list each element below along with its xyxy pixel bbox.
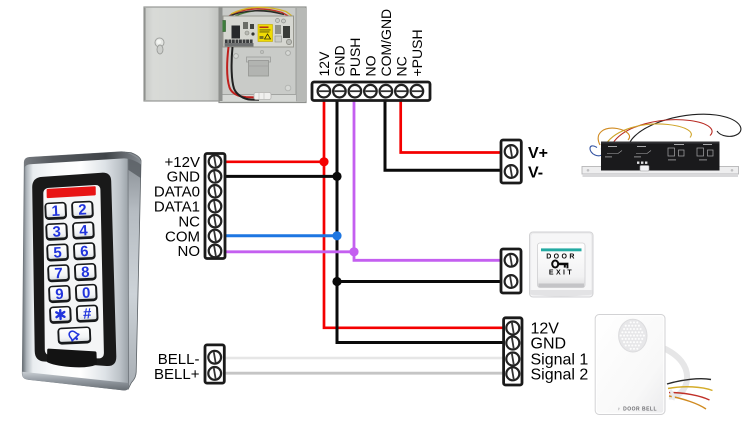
bell box <box>595 315 665 415</box>
wire black COM/GND to V- <box>385 98 501 170</box>
keypad case front <box>22 152 128 390</box>
key * <box>49 306 72 324</box>
key 2 <box>71 201 94 220</box>
wire white signal1 <box>224 357 503 360</box>
keypad black bezel panel <box>32 173 116 366</box>
svg-text:Signal 2: Signal 2 <box>531 366 589 383</box>
svg-text:PUSH: PUSH <box>347 38 363 77</box>
terminal block bell <box>504 318 522 385</box>
svg-text:1: 1 <box>51 203 60 220</box>
bell speaker <box>619 319 647 352</box>
key 5 <box>46 243 69 262</box>
wire black GND vertical to bell <box>337 98 504 343</box>
svg-text:GND: GND <box>531 336 567 353</box>
svg-text:V+: V+ <box>528 145 548 162</box>
terminal block exit button <box>501 249 521 293</box>
key bell <box>57 326 91 345</box>
svg-text:GND: GND <box>332 45 348 76</box>
svg-text:NO: NO <box>363 55 379 76</box>
door bell <box>595 315 712 415</box>
junction dot red <box>319 157 328 166</box>
svg-text:12V: 12V <box>316 51 332 77</box>
PSU door lock <box>155 38 164 47</box>
svg-text:2: 2 <box>78 201 87 218</box>
svg-text:♀ DOOR BELL: ♀ DOOR BELL <box>617 407 657 413</box>
svg-text:BELL+: BELL+ <box>154 366 200 383</box>
wire purple keypad NO <box>225 250 354 253</box>
keypad white key plate <box>43 185 104 358</box>
key 1 <box>44 202 67 221</box>
junction dot purple <box>349 247 358 256</box>
junction dot black GND/keypad <box>332 172 341 181</box>
power supply enclosure <box>144 7 306 103</box>
wire blue keypad COM <box>225 234 337 237</box>
svg-text:9: 9 <box>55 286 64 303</box>
svg-text:5: 5 <box>53 244 62 261</box>
svg-text:0: 0 <box>82 285 91 302</box>
terminal block PSU outputs (top) <box>312 82 430 101</box>
svg-text:#: # <box>83 305 93 322</box>
wire red keypad +12V <box>225 160 324 163</box>
key 3 <box>45 223 68 242</box>
svg-text:+PUSH: +PUSH <box>409 29 425 76</box>
key 0 <box>75 284 98 303</box>
svg-text:COM/GND: COM/GND <box>378 9 394 77</box>
key 6 <box>73 242 96 261</box>
svg-text:NC: NC <box>394 56 410 76</box>
svg-text:4: 4 <box>79 222 89 239</box>
junction dot blue COM <box>332 231 341 240</box>
bell cable <box>661 347 687 397</box>
wire red 12V vertical to bell <box>324 98 504 328</box>
keypad red LED bar <box>47 186 96 198</box>
keypad case side <box>124 152 141 390</box>
svg-text:8: 8 <box>81 264 90 281</box>
key icon <box>552 261 568 269</box>
lock mounting plate <box>582 167 739 175</box>
key 8 <box>74 263 97 282</box>
wire purple PUSH vertical <box>354 98 501 260</box>
keypad bottom recess <box>47 349 97 368</box>
key # <box>76 304 99 323</box>
svg-text:EXIT: EXIT <box>549 270 574 277</box>
terminal block keypad bell wires <box>205 345 224 383</box>
keypad access control unit <box>22 152 141 391</box>
lock body <box>601 142 720 171</box>
svg-text:DOOR: DOOR <box>546 254 577 261</box>
PSU wires descending <box>227 47 256 97</box>
door exit button <box>530 232 594 297</box>
PSU transformer <box>247 57 271 62</box>
svg-text:7: 7 <box>54 265 63 282</box>
PSU door <box>144 7 219 101</box>
wire red NC to V+ <box>401 98 501 153</box>
PSU pcb <box>229 9 290 17</box>
warning label <box>258 25 273 42</box>
lock wires <box>590 114 741 156</box>
terminal block keypad <box>205 154 225 259</box>
svg-text:6: 6 <box>80 243 89 260</box>
wire black to exit button <box>337 280 501 283</box>
keypad case top band <box>24 152 141 168</box>
key 9 <box>48 285 71 304</box>
svg-text:3: 3 <box>52 223 61 240</box>
key 4 <box>72 221 95 240</box>
electric bolt lock <box>582 114 741 177</box>
wire gray signal2 <box>224 372 503 375</box>
keypad case bottom band <box>22 372 128 390</box>
svg-text:NO: NO <box>178 243 201 260</box>
junction dot black exit <box>332 277 341 286</box>
exit button teal bar <box>541 248 582 251</box>
key 7 <box>47 264 70 283</box>
terminal block lock V+/V- <box>501 140 521 183</box>
wire black keypad GND <box>225 175 337 178</box>
svg-text:V-: V- <box>528 165 543 182</box>
